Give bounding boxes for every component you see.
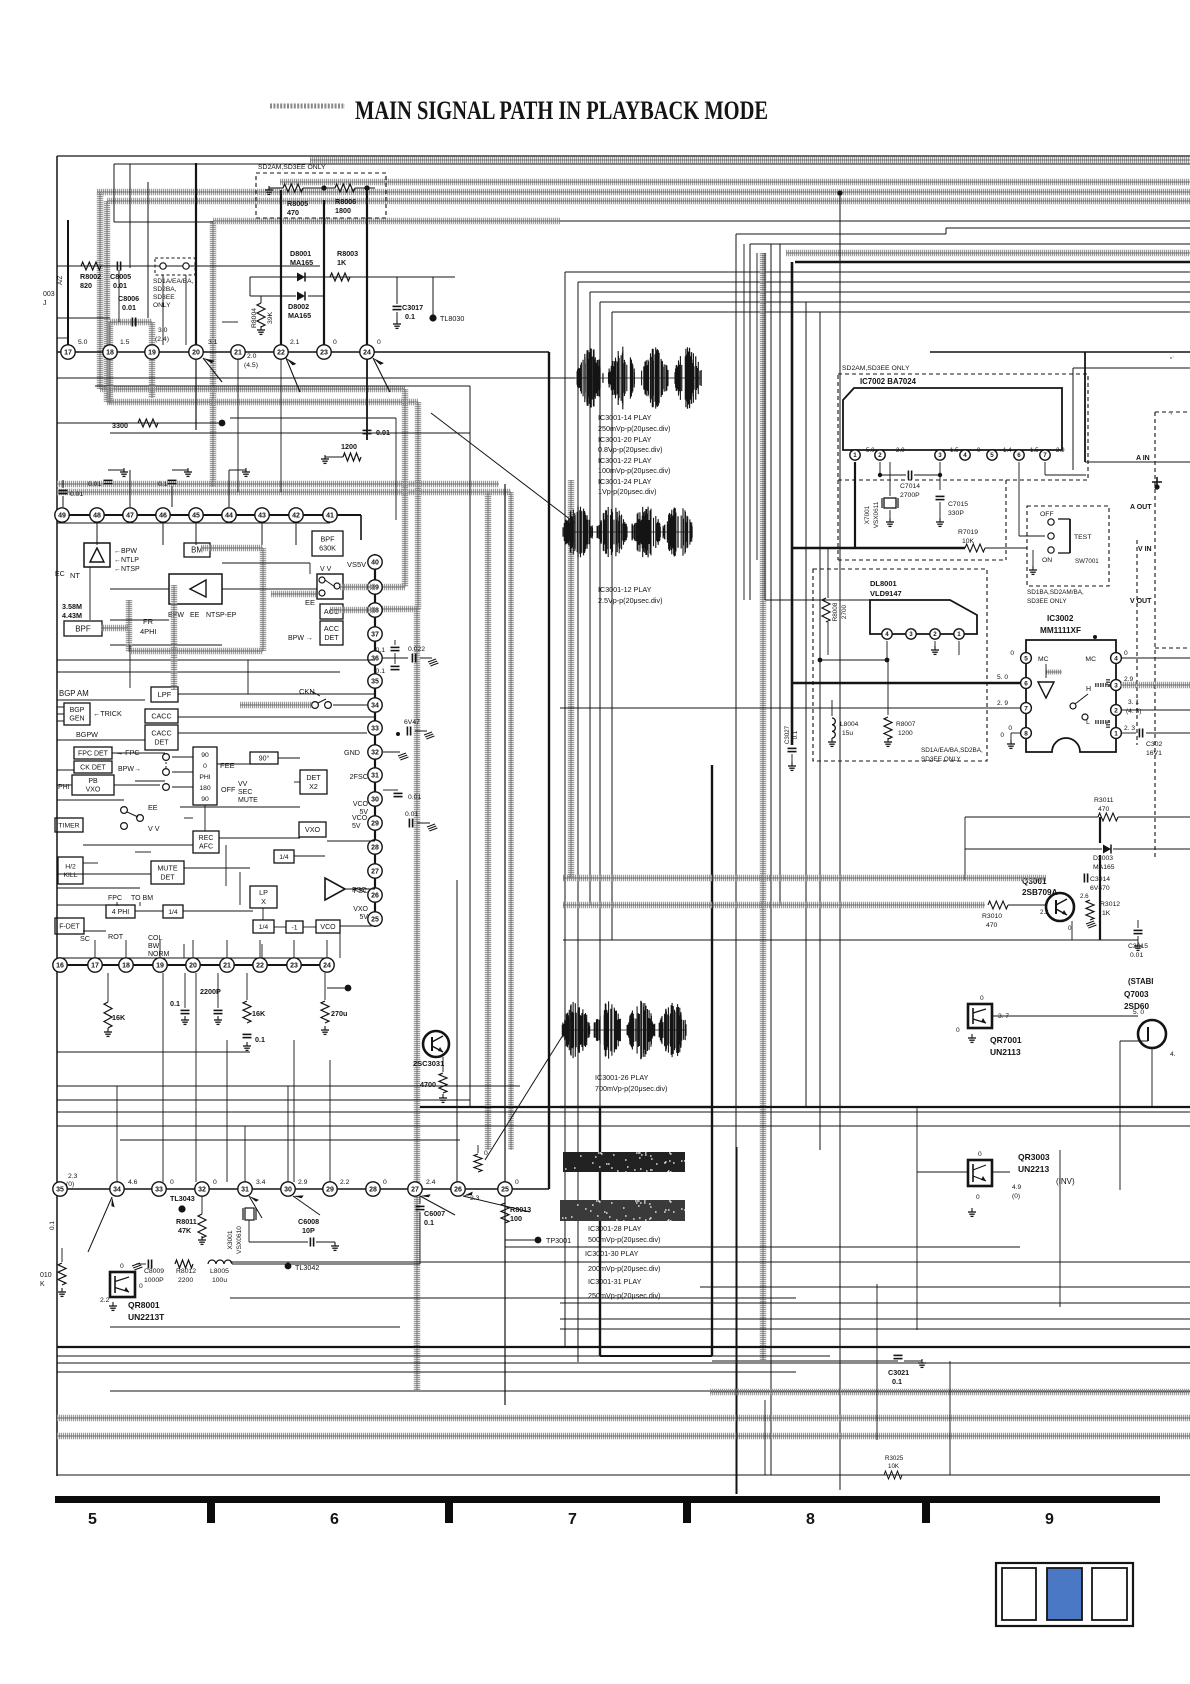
svg-text:0: 0 [978,1151,982,1158]
svg-text:QR8001: QR8001 [128,1300,160,1310]
svg-text:2.1: 2.1 [290,339,300,346]
svg-text:IC3001-14 PLAY: IC3001-14 PLAY [598,413,652,422]
svg-text:SD2AM,SD3EE ONLY: SD2AM,SD3EE ONLY [258,164,326,171]
svg-text:48: 48 [93,513,101,520]
svg-text:25: 25 [371,917,379,924]
svg-text:R8011: R8011 [176,1217,197,1226]
svg-text:C7014: C7014 [900,483,920,490]
svg-text:0.1: 0.1 [424,1218,434,1227]
svg-text:←NTLP: ←NTLP [114,557,139,564]
svg-text:470: 470 [986,922,998,929]
svg-text:TIMER: TIMER [58,822,79,829]
svg-text:90: 90 [201,752,209,759]
svg-text:2200: 2200 [178,1277,193,1284]
svg-text:EE: EE [190,612,200,619]
svg-text:(INV): (INV) [1056,1177,1075,1186]
svg-text:5V: 5V [352,823,361,830]
svg-text:3.1: 3.1 [208,339,218,346]
svg-text:4: 4 [1114,655,1118,662]
svg-text:0: 0 [120,1263,124,1270]
svg-text:29: 29 [371,821,379,828]
svg-text:17: 17 [91,963,99,970]
svg-text:2: 2 [878,452,882,459]
svg-text:DET: DET [324,633,339,642]
svg-text:47K: 47K [178,1226,192,1235]
svg-text:2: 2 [933,631,937,638]
svg-text:2.4: 2.4 [426,1179,436,1186]
svg-text:16K: 16K [252,1009,266,1018]
svg-text:FPC: FPC [108,895,122,902]
svg-text:5: 5 [990,452,994,459]
svg-text:VSX0610: VSX0610 [236,1226,243,1254]
svg-text:0.8Vp-p(20μsec.div): 0.8Vp-p(20μsec.div) [598,445,662,454]
svg-text:31: 31 [241,1187,249,1194]
svg-text:SD3EE ONLY: SD3EE ONLY [1027,598,1067,605]
svg-text:2FSC: 2FSC [350,772,368,781]
svg-text:22: 22 [277,350,285,357]
svg-text:MA165: MA165 [288,311,311,320]
svg-text:32: 32 [371,750,379,757]
svg-text:36: 36 [371,656,379,663]
svg-text:5. 0: 5. 0 [997,674,1008,681]
svg-text:1K: 1K [1102,910,1111,917]
svg-text:BGP: BGP [70,707,85,714]
svg-text:UN2113: UN2113 [990,1047,1021,1057]
svg-text:V OUT: V OUT [1130,598,1152,605]
svg-text:A/Z: A/Z [58,275,64,285]
svg-text:820: 820 [80,281,92,290]
svg-text:0.1: 0.1 [376,668,386,675]
svg-text:SD1BA,SD2AM/BA,: SD1BA,SD2AM/BA, [1027,589,1084,596]
svg-text:ONLY: ONLY [153,302,171,309]
svg-text:18: 18 [122,963,130,970]
svg-text:0: 0 [1008,725,1012,732]
svg-text:4.43M: 4.43M [62,611,82,620]
svg-text:VCO: VCO [320,924,336,931]
svg-text:1.5: 1.5 [120,339,130,346]
svg-text:C3017: C3017 [402,303,423,312]
svg-text:SD3EE: SD3EE [153,294,175,301]
svg-text:ACC: ACC [324,624,339,633]
svg-text:1: 1 [1114,730,1118,737]
svg-text:3. 7: 3. 7 [998,1013,1009,1020]
svg-text:2.2: 2.2 [340,1179,350,1186]
svg-text:25: 25 [501,1187,509,1194]
svg-text:4.: 4. [1170,1051,1176,1058]
svg-text:200mVp-p(20μsec.div): 200mVp-p(20μsec.div) [588,1264,660,1273]
svg-text:X2: X2 [309,782,318,791]
svg-text:(4.5): (4.5) [244,362,258,369]
svg-text:6: 6 [1017,452,1021,459]
svg-text:1/4: 1/4 [168,909,178,916]
svg-text:6: 6 [1024,680,1028,687]
svg-text:180: 180 [199,785,211,792]
svg-text:2.3: 2.3 [68,1173,78,1180]
svg-text:GND: GND [344,748,360,757]
svg-text:0.1: 0.1 [170,999,180,1008]
svg-text:VCO: VCO [352,815,368,822]
svg-text:0: 0 [383,1179,387,1186]
svg-text:1Vp-p(20μsec.div): 1Vp-p(20μsec.div) [598,487,656,496]
svg-text:470: 470 [287,208,299,217]
svg-text:100: 100 [510,1214,522,1223]
svg-text:IC3001-24 PLAY: IC3001-24 PLAY [598,477,652,486]
svg-text:0: 0 [1000,732,1004,739]
svg-text:FEE: FEE [220,761,235,770]
svg-text:DET: DET [154,737,169,746]
svg-text:24: 24 [363,350,371,357]
svg-text:31: 31 [371,773,379,780]
svg-text:R8002: R8002 [80,272,101,281]
svg-text:CACC: CACC [151,712,171,721]
svg-text:0: 0 [203,763,207,770]
svg-text:X: X [261,897,266,906]
svg-text:4.6: 4.6 [128,1179,138,1186]
svg-text:0: 0 [1124,650,1128,657]
svg-text:C3014: C3014 [1090,876,1110,883]
svg-text:39K: 39K [267,311,274,324]
svg-text:8: 8 [1024,730,1028,737]
svg-text:R8012: R8012 [176,1268,196,1275]
svg-text:3. 1: 3. 1 [1128,699,1139,706]
svg-text:6: 6 [330,1511,339,1528]
svg-text:SD1A/EA/BA,: SD1A/EA/BA, [153,278,193,285]
svg-text:C8006: C8006 [118,294,139,303]
svg-text:0: 0 [1010,650,1014,657]
svg-text:630K: 630K [319,543,336,552]
svg-text:34: 34 [371,703,379,710]
svg-text:0: 0 [333,339,337,346]
svg-text:VS5V: VS5V [347,560,366,569]
svg-text:49: 49 [58,513,66,520]
svg-text:IC3001-30 PLAY: IC3001-30 PLAY [585,1249,639,1258]
svg-text:R8013: R8013 [510,1205,531,1214]
svg-text:A IN: A IN [1136,455,1150,462]
svg-text:UN2213: UN2213 [1018,1164,1049,1174]
svg-text:6V470: 6V470 [1090,885,1110,892]
svg-text:MM1111XF: MM1111XF [1040,626,1081,635]
svg-text:L8005: L8005 [210,1268,229,1275]
svg-text:MC: MC [1085,656,1096,663]
svg-text:5V: 5V [359,914,368,921]
svg-text:26: 26 [454,1187,462,1194]
svg-text:X3001: X3001 [227,1230,234,1249]
svg-text:42: 42 [292,513,300,520]
svg-text:A OUT: A OUT [1130,504,1152,511]
svg-text:PB: PB [88,778,98,785]
svg-text:44: 44 [225,513,233,520]
svg-text:SD3EE ONLY: SD3EE ONLY [921,756,961,763]
svg-text:MA165: MA165 [290,258,313,267]
svg-text:FPC DET: FPC DET [78,750,109,757]
svg-text:0: 0 [956,1027,960,1034]
svg-text:0: 0 [170,1179,174,1186]
svg-text:J: J [43,300,47,307]
svg-text:5: 5 [1024,655,1028,662]
svg-text:C8005: C8005 [110,272,131,281]
svg-text:5: 5 [88,1511,97,1528]
svg-text:(0): (0) [66,1181,74,1188]
svg-text:CK DET: CK DET [80,764,106,771]
svg-text:BPF: BPF [75,624,91,633]
svg-text:0.01: 0.01 [113,281,127,290]
svg-text:1/4: 1/4 [259,924,269,931]
svg-text:1K: 1K [337,258,347,267]
svg-text:EE: EE [148,803,158,812]
svg-text:LP: LP [259,888,268,897]
svg-text:LPF: LPF [158,690,172,699]
svg-text:(2.4): (2.4) [155,336,169,343]
svg-text:REC: REC [199,835,214,842]
svg-text:30: 30 [284,1187,292,1194]
svg-text:2: 2 [1114,707,1118,714]
svg-text:2SC3031: 2SC3031 [413,1059,444,1068]
svg-text:PHI: PHI [199,774,210,781]
svg-text:R8007: R8007 [896,721,916,728]
svg-text:AFC: AFC [199,844,213,851]
svg-text:ROT: ROT [108,932,124,941]
svg-text:1200: 1200 [341,442,357,451]
svg-text:0: 0 [139,1283,143,1290]
svg-text:7: 7 [1024,705,1028,712]
svg-text:0.01: 0.01 [70,491,83,498]
svg-text:R8005: R8005 [287,199,308,208]
svg-text:23: 23 [320,350,328,357]
svg-text:250mVp-p(20μsec.div): 250mVp-p(20μsec.div) [588,1291,660,1300]
svg-text:SD2BA,: SD2BA, [153,286,177,293]
svg-text:VCO: VCO [353,801,369,808]
svg-text:4: 4 [885,631,889,638]
svg-text:Q7003: Q7003 [1124,990,1149,999]
svg-text:2.0: 2.0 [247,353,257,360]
svg-text:IC3001-28 PLAY: IC3001-28 PLAY [588,1224,642,1233]
svg-text:BPW→: BPW→ [118,766,141,773]
svg-text:0.1: 0.1 [158,481,168,488]
svg-text:16K: 16K [112,1013,126,1022]
svg-text:←BPW: ←BPW [114,548,137,555]
svg-text:IC3002: IC3002 [1047,614,1074,623]
svg-text:OFF: OFF [221,785,236,794]
svg-text:(STABI: (STABI [1128,977,1153,986]
svg-text:C3021: C3021 [888,1368,909,1377]
svg-text:MAIN SIGNAL PATH IN PLAYBACK M: MAIN SIGNAL PATH IN PLAYBACK MODE [355,96,768,125]
svg-text:QR3003: QR3003 [1018,1152,1050,1162]
svg-text:30: 30 [371,797,379,804]
svg-text:1: 1 [853,452,857,459]
svg-text:←TRICK: ←TRICK [93,709,122,718]
svg-text:35: 35 [56,1187,64,1194]
svg-text:IC7002 BA7024: IC7002 BA7024 [860,377,917,386]
svg-text:2.2: 2.2 [1040,909,1049,916]
svg-text:4 PHI: 4 PHI [112,909,130,916]
svg-text:46: 46 [159,513,167,520]
svg-text:IC3001-20 PLAY: IC3001-20 PLAY [598,435,652,444]
svg-text:45: 45 [192,513,200,520]
svg-text:0: 0 [515,1179,519,1186]
svg-text:19: 19 [148,350,156,357]
svg-text:C6008: C6008 [298,1217,319,1226]
svg-text:330P: 330P [948,510,964,517]
svg-text:TL3043: TL3043 [170,1194,195,1203]
svg-text:10P: 10P [302,1226,315,1235]
svg-text:2700: 2700 [841,604,848,619]
svg-text:VSX0611: VSX0611 [873,501,880,528]
svg-text:3300: 3300 [112,421,128,430]
svg-text:EC: EC [55,571,65,578]
svg-text:18: 18 [106,350,114,357]
svg-text:003: 003 [43,291,55,298]
svg-text:L8004: L8004 [840,721,859,728]
svg-text:R8006: R8006 [335,197,356,206]
svg-text:26: 26 [371,893,379,900]
svg-text:27: 27 [411,1187,419,1194]
svg-text:32: 32 [198,1187,206,1194]
svg-text:R3025: R3025 [885,1455,904,1462]
svg-text:GEN: GEN [69,716,84,723]
svg-text:1800: 1800 [335,206,351,215]
svg-text:DET: DET [160,872,175,881]
svg-text:0.1: 0.1 [49,1221,56,1230]
svg-text:270u: 270u [331,1009,347,1018]
svg-text:IC3001-26 PLAY: IC3001-26 PLAY [595,1073,649,1082]
svg-text:2. 9: 2. 9 [997,700,1008,707]
svg-text:21: 21 [223,963,231,970]
svg-text:R7019: R7019 [958,529,978,536]
svg-text:OFF: OFF [1040,511,1054,518]
svg-text:8: 8 [806,1511,815,1528]
svg-text:H/2: H/2 [65,864,76,871]
svg-text:2.2: 2.2 [100,1297,110,1304]
svg-text:100mVp-p(20μsec.div): 100mVp-p(20μsec.div) [598,466,670,475]
svg-text:MUTE: MUTE [157,864,178,873]
svg-text:9: 9 [1045,1511,1054,1528]
svg-text:2.6: 2.6 [1080,893,1089,900]
svg-text:16: 16 [56,963,64,970]
svg-text:15u: 15u [842,730,853,737]
svg-text:43: 43 [258,513,266,520]
svg-text:22: 22 [256,963,264,970]
svg-text:NT: NT [70,571,80,580]
svg-text:R3011: R3011 [1094,797,1114,804]
svg-text:0.01: 0.01 [408,794,421,801]
svg-text:-1: -1 [291,924,297,931]
svg-text:0.1: 0.1 [255,1035,265,1044]
svg-text:16V1: 16V1 [1146,750,1162,757]
svg-text:V IN: V IN [1138,546,1152,553]
svg-text:MUTE: MUTE [238,797,258,804]
svg-text:DL8001: DL8001 [870,579,897,588]
svg-text:3: 3 [909,631,913,638]
svg-text:R3010: R3010 [982,913,1002,920]
svg-text:40: 40 [371,560,379,567]
svg-text:V V: V V [148,824,160,833]
svg-text:5.0: 5.0 [866,447,875,454]
svg-text:BGPW: BGPW [76,730,98,739]
svg-text:VLD9147: VLD9147 [870,589,902,598]
svg-text:700mVp-p(20μsec.div): 700mVp-p(20μsec.div) [595,1084,667,1093]
svg-text:D3003: D3003 [1093,855,1113,862]
svg-text:0.01: 0.01 [122,303,136,312]
svg-text:1000P: 1000P [144,1277,164,1284]
svg-text:33: 33 [371,726,379,733]
svg-text:SD1A/EA/BA,SD2BA,: SD1A/EA/BA,SD2BA, [921,747,983,754]
svg-text:BPW →: BPW → [288,635,313,642]
svg-text:4PHI: 4PHI [140,627,157,636]
svg-text:500mVp-p(20μsec.div): 500mVp-p(20μsec.div) [588,1235,660,1244]
svg-text:0: 0 [977,447,981,454]
svg-text:20: 20 [189,963,197,970]
svg-text:90°: 90° [259,754,270,762]
svg-text:34: 34 [113,1187,121,1194]
svg-text:2. 3: 2. 3 [1124,725,1135,732]
svg-text:0.1: 0.1 [376,647,386,654]
svg-text:←NTSP: ←NTSP [114,566,140,573]
svg-text:FR: FR [143,617,154,626]
svg-text:(4. 3): (4. 3) [1126,708,1141,715]
svg-text:DET: DET [306,773,321,782]
svg-text:TO BM: TO BM [131,895,153,902]
svg-text:C8009: C8009 [144,1268,164,1275]
svg-text:BPF: BPF [321,535,336,544]
svg-text:21: 21 [234,350,242,357]
svg-text:1.4: 1.4 [1003,447,1012,454]
svg-text:→ FPC: → FPC [116,748,140,757]
svg-text:0: 0 [980,995,984,1002]
svg-text:0: 0 [213,1179,217,1186]
svg-text:MA165: MA165 [1093,864,1115,871]
svg-text:(0): (0) [1012,1193,1020,1200]
svg-text:K: K [40,1281,45,1288]
svg-text:7: 7 [568,1511,577,1528]
svg-text:UN2213T: UN2213T [128,1312,165,1322]
svg-text:0.01: 0.01 [376,428,390,437]
svg-text:4700: 4700 [420,1080,436,1089]
svg-text:SD2AM,SD3EE ONLY: SD2AM,SD3EE ONLY [842,365,910,372]
svg-text:C6007: C6007 [424,1209,445,1218]
svg-text:QR7001: QR7001 [990,1035,1022,1045]
svg-text:R8008: R8008 [832,602,839,621]
svg-text:0.01: 0.01 [88,481,101,488]
svg-text:19: 19 [156,963,164,970]
svg-text:IC3001-31 PLAY: IC3001-31 PLAY [588,1277,642,1286]
svg-text:VXO: VXO [305,825,321,834]
svg-text:23: 23 [290,963,298,970]
svg-text:2.5Vp-p(20μsec.div): 2.5Vp-p(20μsec.div) [598,596,662,605]
svg-text:BGP AM: BGP AM [59,689,89,698]
svg-text:D8002: D8002 [288,302,309,311]
svg-text:20: 20 [192,350,200,357]
svg-text:0.01: 0.01 [405,811,418,818]
svg-text:3.58M: 3.58M [62,602,82,611]
svg-text:4.9: 4.9 [1012,1184,1021,1191]
svg-text:C7015: C7015 [948,501,968,508]
svg-text:41: 41 [326,513,334,520]
svg-text:BW: BW [148,943,160,950]
svg-text:0: 0 [976,1194,980,1201]
svg-text:10K: 10K [888,1463,900,1470]
svg-text:010: 010 [40,1272,52,1279]
svg-text:R8003: R8003 [337,249,358,258]
svg-text:C302: C302 [1146,741,1162,748]
svg-text:5.0: 5.0 [78,339,88,346]
svg-text:˙’: ˙’ [1168,412,1172,420]
svg-text:VXO: VXO [353,906,368,913]
svg-text:NTSP-EP: NTSP-EP [206,612,237,619]
svg-text:R8004: R8004 [251,308,258,328]
svg-text:0.1: 0.1 [792,730,799,739]
svg-text:TP3001: TP3001 [546,1236,571,1245]
svg-text:IC3001-22 PLAY: IC3001-22 PLAY [598,456,652,465]
